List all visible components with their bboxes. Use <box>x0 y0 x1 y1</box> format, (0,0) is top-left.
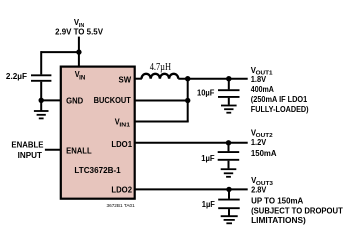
svg-text:ENABLE: ENABLE <box>11 140 43 150</box>
node BUCKOUT junction <box>185 98 190 103</box>
svg-text:4.7µH: 4.7µH <box>150 62 171 73</box>
svg-text:IN1: IN1 <box>119 123 130 129</box>
wire VIN vertical drop <box>78 37 80 67</box>
wire VIN1 pin <box>135 121 189 123</box>
wire GND node to GND pin <box>41 99 61 101</box>
net VOUT2 annotation <box>251 127 277 158</box>
wire C1 top lead <box>40 51 42 74</box>
svg-text:150mA: 150mA <box>251 148 277 158</box>
svg-text:INPUT: INPUT <box>18 150 43 160</box>
svg-text:(250mA IF LDO1: (250mA IF LDO1 <box>251 94 308 104</box>
net VIN supply label <box>55 17 103 36</box>
node VIN junction <box>76 49 81 54</box>
wire SW node vertical to VIN1 <box>187 79 189 122</box>
svg-text:10µF: 10µF <box>197 88 214 98</box>
wire ENALL pin <box>45 149 61 151</box>
wire SW pin to L1 <box>135 78 142 80</box>
node GND junction <box>39 98 44 103</box>
ground symbol C3 <box>221 169 237 177</box>
wire C1 bottom lead to ground <box>40 82 42 111</box>
svg-text:IN: IN <box>79 76 85 82</box>
capacitor C2 10uF <box>197 79 240 105</box>
svg-text:(SUBJECT TO DROPOUT: (SUBJECT TO DROPOUT <box>251 206 343 216</box>
svg-text:FULLY-LOADED): FULLY-LOADED) <box>251 104 309 114</box>
capacitor C3 1uF <box>201 143 239 169</box>
capacitor C4 1uF <box>202 189 240 215</box>
node VOUT1 cap junction <box>226 76 231 81</box>
ground symbol C4 <box>221 216 238 223</box>
net VOUT3 annotation <box>251 175 343 225</box>
svg-text:2.2µF: 2.2µF <box>6 71 27 81</box>
svg-text:1µF: 1µF <box>202 199 215 209</box>
net VOUT1 annotation <box>251 65 309 114</box>
ground symbol left <box>34 111 49 118</box>
wire VIN to C1 <box>41 51 79 53</box>
svg-text:ENALL: ENALL <box>66 146 92 156</box>
svg-text:BUCKOUT: BUCKOUT <box>94 95 132 105</box>
wire LDO1 rail <box>135 142 248 144</box>
svg-text:GND: GND <box>66 96 83 106</box>
svg-text:2.8V: 2.8V <box>251 185 267 195</box>
svg-text:SW: SW <box>119 74 132 84</box>
svg-text:LIMITATIONS): LIMITATIONS) <box>251 215 306 225</box>
label ENABLE INPUT <box>11 140 43 160</box>
svg-text:1µF: 1µF <box>201 153 214 163</box>
node LDO1 cap junction <box>226 140 231 145</box>
svg-text:1.2V: 1.2V <box>251 137 267 147</box>
svg-text:1.8V: 1.8V <box>251 74 267 84</box>
svg-text:LTC3672B-1: LTC3672B-1 <box>74 165 120 175</box>
op IC U1 LTC3672B-1 body <box>61 67 135 199</box>
wire BUCKOUT pin <box>135 100 188 102</box>
capacitor C1 2.2uF <box>6 71 52 81</box>
svg-text:400mA: 400mA <box>251 84 274 94</box>
node LDO2 cap junction <box>226 187 231 192</box>
svg-text:2.9V TO 5.5V: 2.9V TO 5.5V <box>55 27 103 37</box>
inductor L1 4.7uH <box>142 62 179 79</box>
wire LDO2 rail <box>135 188 248 190</box>
svg-text:LDO2: LDO2 <box>111 184 132 194</box>
node SW/L1 junction <box>185 76 190 81</box>
svg-text:3672B1 TA01: 3672B1 TA01 <box>107 203 136 208</box>
svg-text:LDO1: LDO1 <box>111 139 132 149</box>
svg-text:UP TO 150mA: UP TO 150mA <box>251 195 303 205</box>
wire VOUT1 rail <box>178 78 247 80</box>
ground symbol C2 <box>221 106 237 113</box>
